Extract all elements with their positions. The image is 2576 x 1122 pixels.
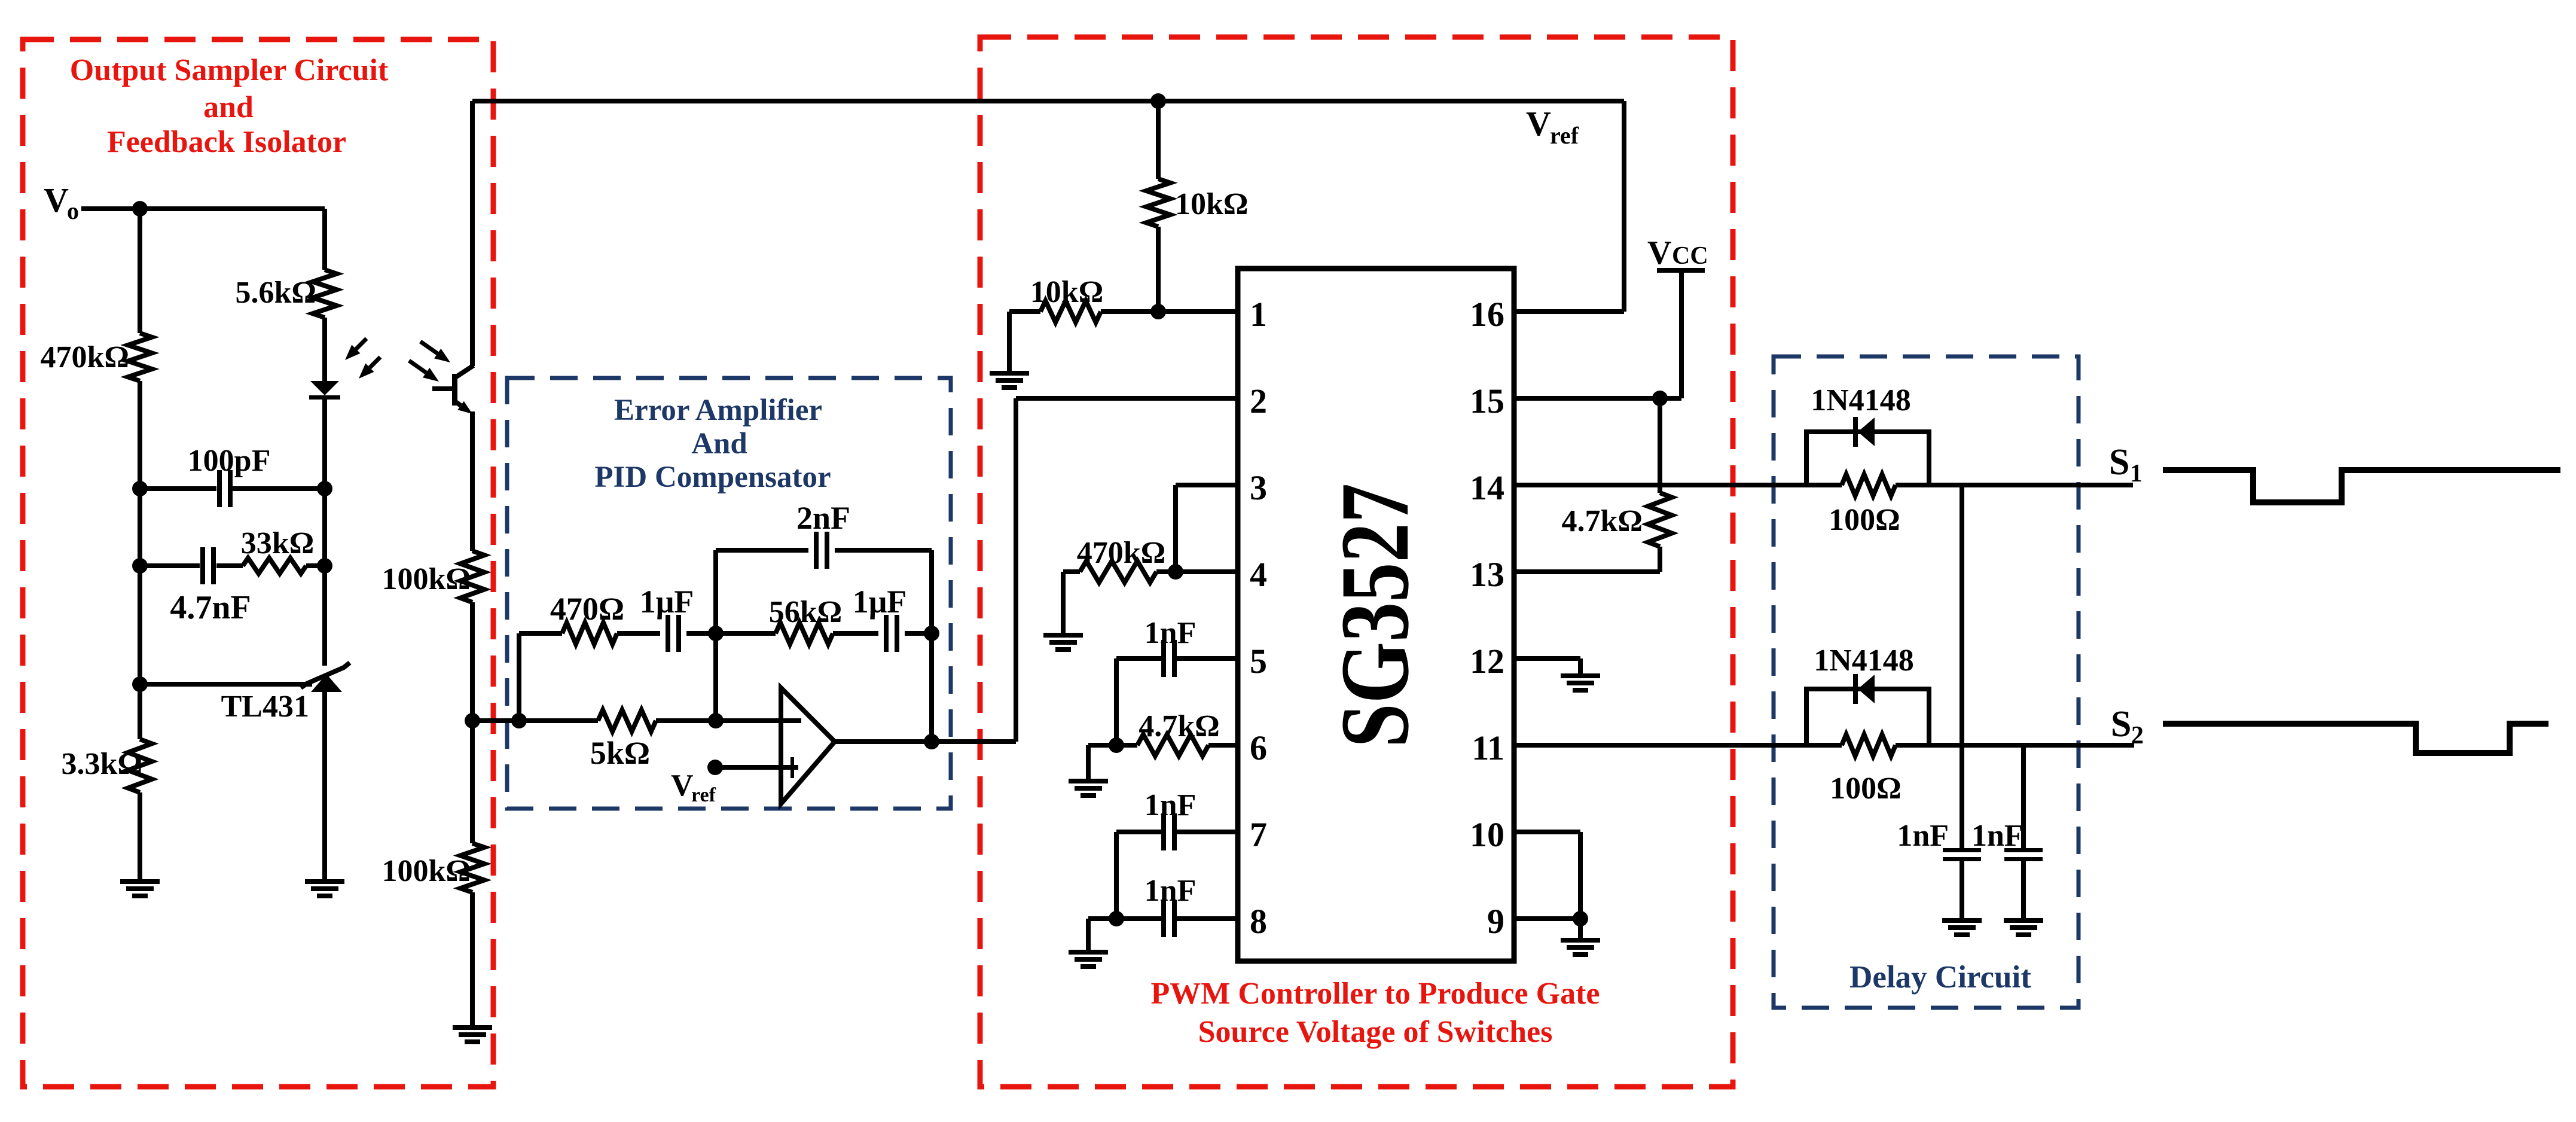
svg-text:Feedback Isolator: Feedback Isolator <box>107 125 346 159</box>
svg-text:100Ω: 100Ω <box>1830 772 1902 806</box>
svg-text:9: 9 <box>1487 902 1504 941</box>
svg-text:100Ω: 100Ω <box>1829 503 1900 537</box>
svg-text:16: 16 <box>1470 295 1504 334</box>
svg-text:7: 7 <box>1250 815 1267 854</box>
svg-text:Output Sampler Circuit: Output Sampler Circuit <box>70 53 389 87</box>
svg-text:13: 13 <box>1470 555 1504 594</box>
svg-text:4: 4 <box>1250 555 1267 594</box>
svg-text:SG3527: SG3527 <box>1321 483 1429 748</box>
svg-text:1N4148: 1N4148 <box>1814 644 1914 678</box>
svg-text:3.3kΩ: 3.3kΩ <box>61 747 142 781</box>
svg-text:33kΩ: 33kΩ <box>241 526 315 560</box>
svg-text:V: V <box>671 769 694 803</box>
svg-text:100kΩ: 100kΩ <box>381 854 471 888</box>
svg-text:5kΩ: 5kΩ <box>590 735 650 771</box>
svg-text:10kΩ: 10kΩ <box>1175 187 1249 221</box>
svg-text:Delay Circuit: Delay Circuit <box>1849 960 2031 995</box>
svg-text:1: 1 <box>2130 460 2142 487</box>
svg-text:15: 15 <box>1470 382 1504 420</box>
svg-text:o: o <box>67 197 79 224</box>
svg-text:1nF: 1nF <box>1144 616 1197 650</box>
svg-text:10: 10 <box>1470 815 1504 854</box>
svg-text:Source Voltage of Switches: Source Voltage of Switches <box>1198 1015 1553 1049</box>
svg-text:3: 3 <box>1250 468 1267 507</box>
svg-text:V: V <box>1647 234 1671 272</box>
svg-text:2: 2 <box>1250 382 1267 420</box>
svg-text:470kΩ: 470kΩ <box>1077 536 1166 570</box>
svg-text:100pF: 100pF <box>188 444 271 478</box>
svg-text:56kΩ: 56kΩ <box>769 595 843 629</box>
svg-text:14: 14 <box>1470 468 1504 507</box>
svg-text:TL431: TL431 <box>221 690 309 724</box>
svg-text:4.7kΩ: 4.7kΩ <box>1561 504 1643 538</box>
svg-text:10kΩ: 10kΩ <box>1030 275 1104 309</box>
svg-text:1nF: 1nF <box>1897 819 1949 853</box>
svg-text:S: S <box>2111 704 2131 745</box>
svg-text:V: V <box>44 181 69 219</box>
svg-text:1nF: 1nF <box>1971 819 2023 853</box>
svg-text:PID Compensator: PID Compensator <box>594 461 831 494</box>
svg-text:470kΩ: 470kΩ <box>40 340 129 374</box>
svg-text:ref: ref <box>691 784 716 806</box>
svg-text:470Ω: 470Ω <box>550 591 624 627</box>
svg-text:V: V <box>1526 104 1551 143</box>
svg-text:12: 12 <box>1470 642 1504 681</box>
svg-text:1μF: 1μF <box>853 584 907 620</box>
svg-text:11: 11 <box>1472 728 1504 767</box>
svg-text:2: 2 <box>2131 722 2144 749</box>
svg-text:5.6kΩ: 5.6kΩ <box>235 276 316 310</box>
svg-text:And: And <box>691 427 747 461</box>
svg-text:100kΩ: 100kΩ <box>381 562 471 596</box>
svg-text:1N4148: 1N4148 <box>1811 383 1911 417</box>
svg-text:1nF: 1nF <box>1144 788 1197 822</box>
svg-text:6: 6 <box>1250 728 1267 767</box>
svg-text:PWM Controller to Produce Gate: PWM Controller to Produce Gate <box>1151 977 1600 1011</box>
svg-text:1μF: 1μF <box>640 584 694 620</box>
svg-text:4.7nF: 4.7nF <box>170 589 251 626</box>
svg-text:and: and <box>203 90 254 124</box>
svg-text:1nF: 1nF <box>1144 874 1197 908</box>
svg-text:2nF: 2nF <box>796 500 850 536</box>
svg-text:Error Amplifier: Error Amplifier <box>614 394 822 427</box>
svg-text:ref: ref <box>1550 122 1579 149</box>
svg-text:5: 5 <box>1250 642 1267 681</box>
svg-text:CC: CC <box>1672 242 1708 270</box>
svg-text:4.7kΩ: 4.7kΩ <box>1139 709 1220 743</box>
svg-text:1: 1 <box>1250 295 1267 334</box>
svg-text:8: 8 <box>1250 902 1267 941</box>
svg-text:S: S <box>2109 442 2129 483</box>
